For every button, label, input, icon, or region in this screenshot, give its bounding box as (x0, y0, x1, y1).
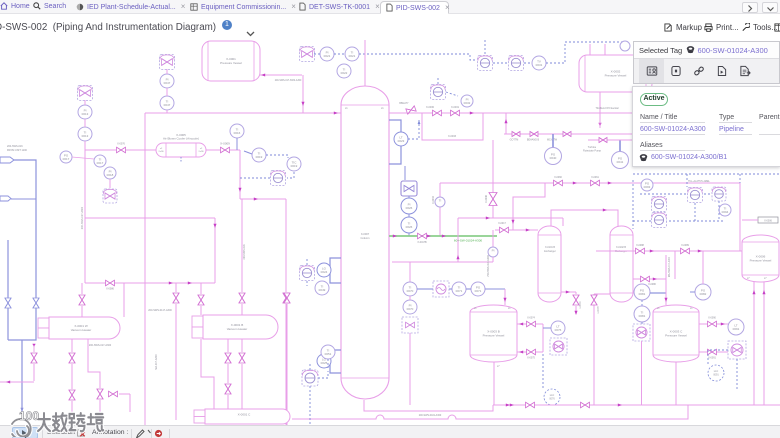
wire top row to cv chain right (359, 54, 477, 60)
column right bridle with LT (389, 120, 401, 164)
signal chain below PG (641, 300, 643, 306)
vertical x=242 lower (241, 199, 243, 292)
svg-text:TILL-ALATST-LABEL: TILL-ALATST-LABEL (688, 180, 710, 183)
wire header to junction (206, 149, 220, 151)
header y=218 (85, 217, 215, 219)
heater H-3 bottom (194, 410, 205, 417)
svg-text:0081: 0081 (639, 314, 646, 318)
EA bottom to EB (561, 291, 576, 293)
vertical x=286 drop (285, 199, 287, 292)
heater H-1 vacuum heater (38, 318, 49, 328)
heater2 outlet (227, 339, 229, 352)
svg-text:X-0074: X-0074 (527, 317, 535, 320)
column left nozzle bracket 2 (330, 350, 341, 373)
svg-text:0076: 0076 (549, 398, 555, 401)
svg-text:Pressure Vessel: Pressure Vessel (750, 259, 772, 263)
svg-text:0016: 0016 (234, 131, 241, 135)
valve on header left (117, 147, 126, 153)
vessel X-0002 drum top right (579, 55, 652, 92)
vessel X-0006 top right (742, 235, 779, 282)
svg-text:PI: PI (492, 249, 495, 253)
drop x=215 (214, 218, 216, 283)
vessel X-0003C pressure vessel (653, 305, 699, 362)
svg-text:0032: 0032 (464, 101, 471, 105)
drop x=176 valve (173, 293, 179, 303)
svg-text:X-0075: X-0075 (527, 357, 535, 360)
label box right (758, 217, 778, 223)
instrument cluster left (60, 151, 72, 163)
document title row (0, 14, 780, 40)
control valve chain A at x=85 (78, 86, 93, 101)
svg-text:x7: x7 (497, 365, 500, 368)
svg-text:X-0060: X-0060 (554, 176, 562, 179)
svg-text:200-SWS-017-SWS-A300: 200-SWS-017-SWS-A300 (275, 79, 302, 82)
svg-text:X-0040: X-0040 (432, 195, 435, 203)
svg-text:0094: 0094 (722, 210, 729, 214)
svg-text:700-SWS-017-A300: 700-SWS-017-A300 (487, 255, 490, 277)
svg-text:Vacuum Heater: Vacuum Heater (71, 328, 92, 332)
signal chain top middle (484, 40, 486, 55)
svg-text:X-0090: X-0090 (708, 317, 716, 320)
air blown cooler X-0005 (156, 143, 206, 157)
watermark (8, 403, 208, 437)
svg-text:0070: 0070 (407, 307, 414, 311)
svg-text:Pressure Vessel: Pressure Vessel (483, 334, 505, 338)
drum nozzle drops (589, 44, 591, 55)
svg-text:0082: 0082 (700, 292, 707, 296)
valve on header (221, 147, 230, 153)
main line y=113 right of column (389, 112, 633, 114)
purple stub (650, 292, 666, 294)
line y=183 (440, 182, 740, 184)
column bottom outlet (364, 400, 493, 411)
drop x=410 (409, 262, 411, 282)
svg-text:0013: 0013 (82, 134, 89, 138)
svg-text:x-0079: x-0079 (580, 301, 582, 309)
turbine pump line y=134 (504, 133, 633, 135)
svg-text:Exchanger: Exchanger (544, 250, 556, 253)
drop from cooler junction (239, 150, 241, 199)
svg-text:0047: 0047 (164, 103, 171, 107)
signal from LT (408, 118, 419, 139)
svg-text:200-SWS-0119-A300: 200-SWS-0119-A300 (419, 414, 442, 417)
instrument TI on header (230, 124, 244, 138)
main line y=113 left of column (145, 112, 341, 114)
drop below heater2 (241, 339, 243, 352)
svg-text:200-SWS-017-A300: 200-SWS-017-A300 (81, 206, 84, 229)
svg-text:0081: 0081 (639, 292, 646, 296)
heater2 outlet b (201, 339, 214, 409)
svg-text:0051: 0051 (325, 352, 332, 356)
svg-text:0013: 0013 (82, 112, 89, 116)
svg-text:0022: 0022 (341, 71, 348, 75)
loop below y=113 (422, 113, 483, 140)
svg-text:X-0061: X-0061 (591, 176, 599, 179)
PG 0082 (695, 284, 711, 300)
risers from header y=183 zone (686, 174, 688, 187)
control valve below cluster (103, 189, 117, 203)
svg-text:Column: Column (361, 236, 370, 240)
wire into column top riser (302, 75, 304, 113)
svg-text:0040: 0040 (550, 156, 557, 160)
bottom toolbar (0, 425, 780, 438)
svg-text:Tilt-Blend Of Fluential: Tilt-Blend Of Fluential (596, 107, 619, 110)
PV-A right side instruments (517, 323, 543, 325)
blue branch 2 (7, 240, 9, 298)
line y=262 (392, 261, 458, 263)
svg-text:X-0008: X-0008 (485, 194, 488, 202)
column top vent (364, 40, 366, 86)
svg-text:0049: 0049 (319, 288, 326, 292)
svg-text:MA-SWS-017-A300: MA-SWS-017-A300 (668, 256, 671, 277)
svg-text:0076: 0076 (555, 328, 562, 332)
svg-text:X-0089: X-0089 (681, 244, 689, 247)
drop x=201 valve (200, 283, 202, 294)
pump PG 0041 (612, 152, 629, 169)
svg-text:0091: 0091 (713, 374, 719, 377)
svg-text:BEHAND B: BEHAND B (527, 139, 540, 142)
svg-text:0021: 0021 (349, 54, 356, 58)
drop x=458 to y=262 (457, 218, 459, 262)
exchanger E-A (538, 226, 561, 302)
header y=251 (596, 250, 742, 252)
svg-text:TI: TI (439, 199, 442, 203)
svg-text:2x2B: 2x2B (199, 151, 205, 153)
valve x=34 branch (32, 344, 35, 348)
blue dashed cluster right mid (633, 173, 780, 175)
control valve chain B at x=167 (160, 55, 175, 70)
instrument TI 0022 (337, 64, 351, 78)
svg-text:0021: 0021 (324, 54, 331, 58)
selected tag panel (633, 41, 780, 84)
svg-text:X-0006: X-0006 (764, 220, 772, 223)
long vertical x=145 (144, 113, 146, 425)
svg-text:0093: 0093 (644, 185, 651, 189)
exchanger top connector (551, 210, 618, 226)
svg-text:0019: 0019 (291, 164, 298, 168)
valve on x=493 (489, 193, 497, 206)
drop x=287 valve (284, 293, 290, 303)
svg-text:0026: 0026 (406, 225, 413, 229)
blue line lower (8, 308, 36, 340)
svg-text:Pressure Vessel: Pressure Vessel (665, 334, 687, 338)
svg-text:X-0030: X-0030 (426, 106, 435, 109)
exchanger E-B (610, 226, 633, 302)
column X-0007 main tower (341, 86, 389, 399)
drop x=740 (739, 183, 741, 251)
svg-text:X-0091: X-0091 (708, 357, 716, 360)
svg-text:X-0017B: X-0017B (417, 241, 427, 244)
svg-text:0017: 0017 (63, 157, 70, 161)
feed flag arrow left (0, 157, 14, 163)
feed drop x=506 (505, 113, 507, 134)
signal dashes near PV-B (708, 350, 728, 366)
cv cluster (688, 188, 703, 203)
svg-text:GOTTM: GOTTM (510, 139, 519, 142)
EB right outlet row (633, 278, 666, 280)
cv on signal loop (287, 172, 294, 178)
mid instrument pair near x=305 (300, 266, 315, 281)
valve on selected line (418, 233, 427, 239)
second pump branch (588, 139, 633, 141)
svg-text:Rotectate Pump: Rotectate Pump (583, 150, 602, 153)
column left nozzle bracket 1 (330, 258, 341, 283)
svg-text:X-0086: X-0086 (106, 288, 114, 291)
svg-text:0091: 0091 (733, 327, 740, 331)
selected pipeline 600-SW-01024-A300 highlighted green (389, 235, 497, 237)
svg-text:0047: 0047 (164, 81, 171, 85)
signal dashes down x=543 (542, 354, 544, 388)
valve on blue line (33, 298, 39, 308)
wire drum2 bottom (599, 92, 601, 113)
svg-text:MA-017-A300: MA-017-A300 (155, 354, 158, 370)
flag 2 (0, 196, 11, 201)
svg-text:0026: 0026 (406, 206, 413, 210)
PV-B right side instruments (699, 323, 729, 325)
instrument at drum top (620, 41, 630, 51)
svg-text:Vacuum Heater: Vacuum Heater (227, 327, 248, 331)
svg-text:FROM UNIT 1100: FROM UNIT 1100 (7, 149, 28, 152)
drop x=242 valve (239, 293, 245, 303)
pump PG 0040 (545, 148, 562, 165)
svg-text:0070: 0070 (407, 289, 414, 293)
horizontal y=199 (240, 198, 286, 200)
svg-text:X-0033: X-0033 (448, 135, 457, 138)
svg-text:Air Blown Cooler (Aircoole): Air Blown Cooler (Aircoole) (163, 137, 199, 141)
svg-text:0071: 0071 (456, 289, 463, 293)
heater outlets (71, 339, 73, 352)
main header y=150 left (85, 149, 156, 151)
svg-text:0019: 0019 (256, 155, 263, 159)
chain from bridle to selected line (404, 166, 406, 180)
continuation to exchanger A (495, 229, 538, 231)
signal dashed to TIC (266, 155, 288, 158)
svg-text:Pressure Vessel: Pressure Vessel (605, 74, 627, 78)
heater H-2 vacuum heater (192, 316, 203, 327)
svg-text:X-0007: X-0007 (361, 232, 370, 236)
svg-text:Pressure Vessel: Pressure Vessel (220, 61, 242, 65)
cv below x=410 (402, 317, 418, 333)
svg-text:0041: 0041 (617, 160, 624, 164)
bottom long header y=405 (493, 404, 780, 406)
svg-text:200-SWS-016: 200-SWS-016 (7, 145, 23, 148)
PG 0081 (634, 284, 650, 300)
valve drop heater1 (81, 283, 83, 294)
svg-text:0017: 0017 (97, 161, 104, 165)
svg-text:200-SWS-018: 200-SWS-018 (243, 244, 246, 260)
valve row top near column (300, 47, 315, 62)
browser tab bar (0, 0, 780, 14)
inline mixer row y=289 (403, 282, 417, 296)
mixer square (433, 281, 449, 297)
blue feed line (14, 160, 36, 298)
svg-text:X-0080: X-0080 (648, 283, 656, 286)
svg-text:2x2B: 2x2B (159, 151, 165, 153)
vessel X-0001 pressure drum (202, 41, 260, 81)
svg-text:0031: 0031 (536, 63, 543, 67)
svg-text:0025: 0025 (321, 361, 328, 365)
drop to heater1 left (123, 283, 125, 317)
svg-text:X-0076: X-0076 (117, 143, 125, 146)
svg-text:0071: 0071 (475, 289, 482, 293)
cv LV-0076 (550, 338, 567, 355)
vertical x=440 with instrument (439, 183, 441, 236)
svg-text:0023: 0023 (398, 139, 405, 143)
svg-text:X-0017: X-0017 (498, 222, 506, 225)
svg-text:BBGATY: BBGATY (399, 102, 409, 105)
svg-text:x-0078: x-0078 (598, 306, 600, 314)
misc top arrows (598, 123, 601, 127)
cv near bottom center (302, 370, 318, 386)
wire drum outlet right (260, 74, 302, 76)
svg-text:0024: 0024 (321, 270, 328, 274)
heater1 outlet 2 (88, 339, 100, 388)
line y=218 (458, 217, 563, 219)
left outfall (0, 381, 34, 383)
drop x=675 (674, 251, 676, 279)
vessel X-0003B pressure vessel (470, 305, 517, 362)
svg-text:X-0088: X-0088 (636, 244, 644, 247)
loop from y=183 (513, 183, 545, 230)
long vertical x=493 (492, 140, 494, 218)
svg-text:X-0031: X-0031 (451, 106, 460, 109)
bowtie bottom left (109, 391, 118, 397)
svg-text:200-SWS-0117-A300: 200-SWS-0117-A300 (148, 309, 172, 312)
instrument TI 0019 (252, 148, 266, 162)
svg-text:100: 100 (19, 409, 39, 423)
header y=283 above heaters (85, 282, 215, 284)
drop into PV-A (504, 289, 506, 305)
svg-text:X-0009: X-0009 (220, 142, 230, 146)
drop x=176 from header (175, 283, 177, 292)
svg-text:X-0101 B: X-0101 B (545, 246, 555, 249)
drop x=493 lower (492, 230, 494, 247)
cv chain above loop (431, 85, 446, 100)
svg-text:0018: 0018 (107, 173, 114, 177)
column feed arrow (301, 102, 304, 106)
svg-text:200-SWS-017-A300: 200-SWS-017-A300 (89, 344, 112, 347)
vertical x=666 into PV-B (665, 255, 667, 305)
svg-text:X-0102 B: X-0102 B (616, 246, 626, 249)
risers into X-0006 (753, 282, 755, 405)
svg-text:X-0001 C: X-0001 C (238, 413, 252, 417)
crossing line y=419 (292, 405, 688, 419)
